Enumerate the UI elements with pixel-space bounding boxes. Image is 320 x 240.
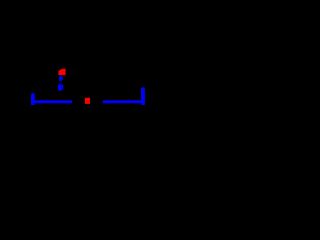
node (red junction square) <box>85 98 90 104</box>
label text (blue blob upper) <box>59 76 63 82</box>
component marker (red blob) <box>58 69 65 75</box>
label text (blue speck between) <box>60 82 61 85</box>
wire (right segment) <box>103 100 141 103</box>
wire (left segment) <box>34 100 72 103</box>
terminal T2 (right post) <box>141 87 145 105</box>
label text (blue blob lower) <box>58 84 63 92</box>
terminal T1 (left post) <box>31 93 35 105</box>
